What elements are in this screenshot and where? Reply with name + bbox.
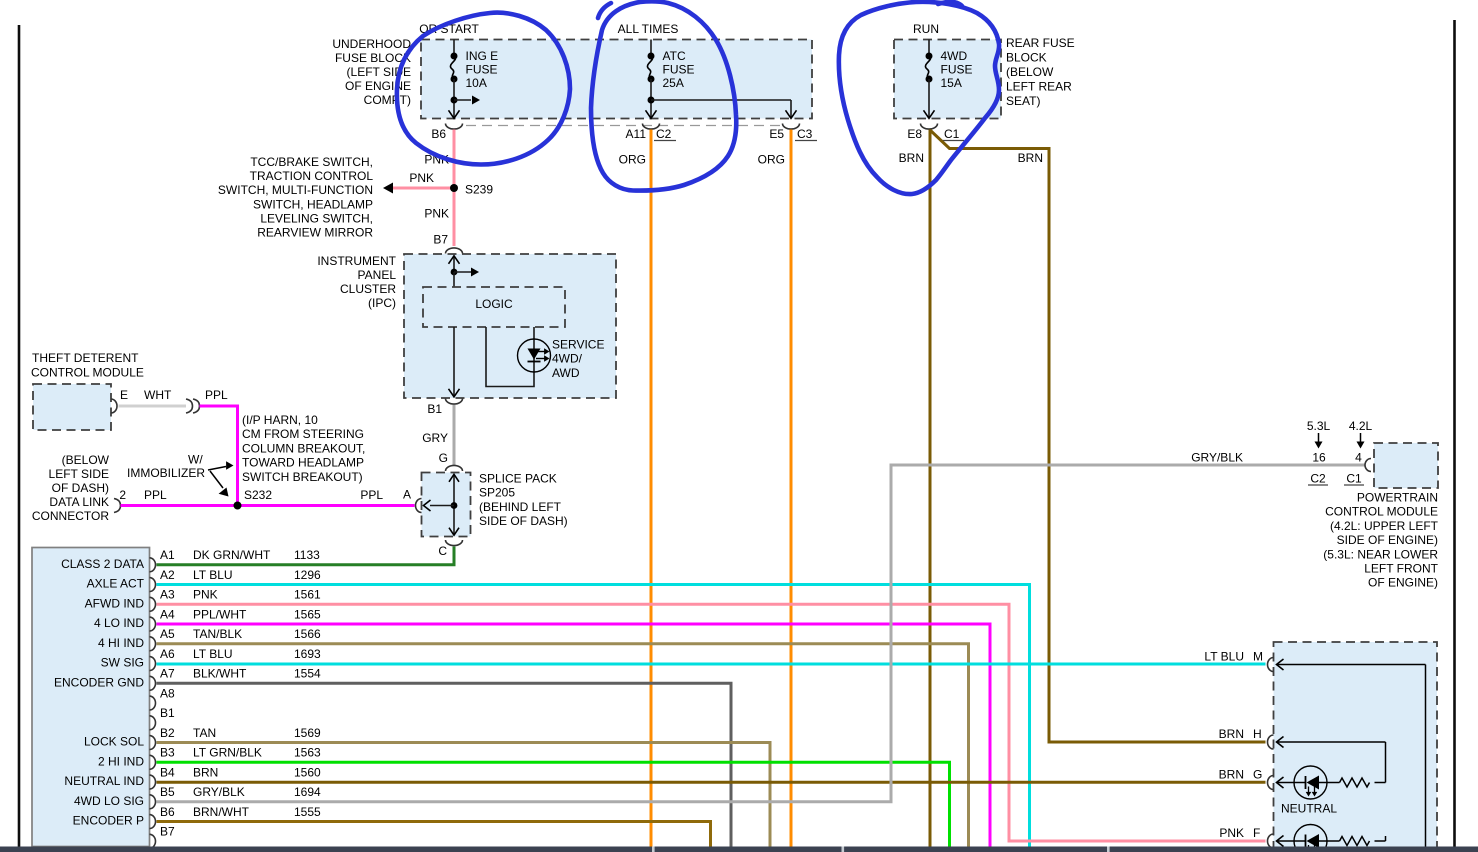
svg-text:LT BLU: LT BLU	[1204, 650, 1244, 664]
svg-text:LT GRN/BLK: LT GRN/BLK	[193, 746, 262, 760]
svg-text:C: C	[438, 544, 447, 558]
svg-text:SIDE OF ENGINE): SIDE OF ENGINE)	[1337, 533, 1438, 547]
svg-text:15A: 15A	[941, 76, 962, 90]
svg-text:4: 4	[1355, 451, 1362, 465]
svg-text:B7: B7	[433, 233, 448, 247]
svg-text:W/: W/	[188, 453, 203, 467]
svg-text:ORG: ORG	[619, 153, 646, 167]
svg-text:1561: 1561	[294, 588, 321, 602]
svg-text:GRY/BLK: GRY/BLK	[1191, 451, 1243, 465]
svg-text:4WD LO SIG: 4WD LO SIG	[74, 794, 144, 808]
svg-text:B1: B1	[160, 706, 175, 720]
svg-text:BRN: BRN	[1018, 151, 1043, 165]
svg-text:PANEL: PANEL	[358, 268, 397, 282]
svg-text:A4: A4	[160, 607, 175, 621]
svg-text:SEAT): SEAT)	[1006, 94, 1040, 108]
svg-text:FUSE: FUSE	[941, 63, 973, 77]
svg-text:H: H	[1253, 727, 1262, 741]
svg-text:B6: B6	[160, 805, 175, 819]
svg-text:1565: 1565	[294, 607, 321, 621]
svg-text:BRN: BRN	[193, 765, 218, 779]
svg-text:SIDE OF DASH): SIDE OF DASH)	[479, 514, 568, 528]
svg-text:FUSE BLOCK: FUSE BLOCK	[335, 51, 411, 65]
svg-text:OF ENGINE): OF ENGINE)	[1368, 576, 1438, 590]
svg-text:LEFT SIDE: LEFT SIDE	[49, 467, 109, 481]
svg-text:(5.3L: NEAR LOWER: (5.3L: NEAR LOWER	[1323, 547, 1438, 561]
svg-text:ATC: ATC	[663, 49, 686, 63]
svg-text:B1: B1	[427, 402, 442, 416]
svg-text:PPL: PPL	[205, 388, 228, 402]
svg-text:S232: S232	[244, 488, 272, 502]
svg-text:4 HI IND: 4 HI IND	[98, 636, 144, 650]
svg-text:UNDERHOOD: UNDERHOOD	[332, 37, 411, 51]
svg-text:1296: 1296	[294, 568, 321, 582]
svg-text:PPL: PPL	[144, 488, 167, 502]
svg-text:SWITCH, MULTI-FUNCTION: SWITCH, MULTI-FUNCTION	[218, 183, 373, 197]
svg-text:LOGIC: LOGIC	[475, 297, 513, 311]
svg-text:A: A	[403, 488, 411, 502]
svg-text:SPLICE PACK: SPLICE PACK	[479, 472, 557, 486]
svg-text:CONNECTOR: CONNECTOR	[32, 509, 109, 523]
svg-text:S239: S239	[465, 183, 493, 197]
svg-text:E5: E5	[769, 127, 784, 141]
svg-text:CONTROL MODULE: CONTROL MODULE	[1325, 505, 1438, 519]
svg-text:4 LO IND: 4 LO IND	[94, 616, 144, 630]
svg-text:OF DASH): OF DASH)	[52, 481, 109, 495]
svg-text:B4: B4	[160, 765, 175, 779]
svg-text:4WD/: 4WD/	[552, 352, 583, 366]
svg-text:(IPC): (IPC)	[368, 296, 396, 310]
svg-text:ENCODER P: ENCODER P	[73, 814, 144, 828]
svg-text:PPL: PPL	[360, 488, 383, 502]
svg-text:PNK: PNK	[1219, 826, 1244, 840]
svg-text:B2: B2	[160, 726, 175, 740]
svg-text:SP205: SP205	[479, 486, 515, 500]
svg-text:A11: A11	[626, 127, 647, 141]
svg-text:ALL TIMES: ALL TIMES	[618, 22, 679, 36]
svg-text:LEFT FRONT: LEFT FRONT	[1364, 562, 1438, 576]
svg-text:PNK: PNK	[424, 207, 449, 221]
svg-text:TAN: TAN	[193, 726, 216, 740]
svg-text:TAN/BLK: TAN/BLK	[193, 627, 242, 641]
svg-text:PNK: PNK	[193, 588, 218, 602]
svg-text:DATA LINK: DATA LINK	[49, 495, 109, 509]
svg-text:COLUMN BREAKOUT,: COLUMN BREAKOUT,	[242, 441, 365, 455]
svg-text:B3: B3	[160, 746, 175, 760]
svg-text:1569: 1569	[294, 726, 321, 740]
svg-text:IMMOBILIZER: IMMOBILIZER	[127, 466, 205, 480]
svg-text:(BEHIND LEFT: (BEHIND LEFT	[479, 500, 562, 514]
svg-text:TOWARD HEADLAMP: TOWARD HEADLAMP	[242, 456, 364, 470]
svg-text:ING E: ING E	[466, 49, 499, 63]
svg-text:B7: B7	[160, 825, 175, 839]
svg-text:AXLE ACT: AXLE ACT	[87, 577, 145, 591]
svg-text:1555: 1555	[294, 805, 321, 819]
svg-text:SERVICE: SERVICE	[552, 338, 604, 352]
svg-text:E: E	[120, 388, 128, 402]
svg-text:PNK: PNK	[409, 171, 434, 185]
svg-text:1694: 1694	[294, 785, 321, 799]
svg-text:A7: A7	[160, 667, 175, 681]
svg-text:BRN: BRN	[1219, 727, 1244, 741]
svg-text:CONTROL MODULE: CONTROL MODULE	[31, 366, 144, 380]
svg-text:2: 2	[119, 488, 126, 502]
svg-text:A6: A6	[160, 647, 175, 661]
svg-text:NEUTRAL: NEUTRAL	[1281, 802, 1337, 816]
svg-text:1554: 1554	[294, 667, 321, 681]
svg-text:REARVIEW MIRROR: REARVIEW MIRROR	[257, 226, 373, 240]
svg-text:OF ENGINE: OF ENGINE	[345, 79, 411, 93]
svg-text:1560: 1560	[294, 765, 321, 779]
svg-text:BRN: BRN	[1219, 768, 1244, 782]
svg-text:4.2L: 4.2L	[1349, 419, 1373, 433]
svg-text:B6: B6	[431, 127, 446, 141]
svg-text:LEVELING SWITCH,: LEVELING SWITCH,	[260, 211, 373, 225]
svg-text:(BELOW: (BELOW	[1006, 65, 1054, 79]
svg-text:GRY/BLK: GRY/BLK	[193, 785, 245, 799]
svg-text:LOCK SOL: LOCK SOL	[84, 735, 144, 749]
svg-text:4WD: 4WD	[941, 49, 968, 63]
svg-text:BLK/WHT: BLK/WHT	[193, 667, 247, 681]
svg-text:CLUSTER: CLUSTER	[340, 282, 396, 296]
svg-text:16: 16	[1312, 451, 1326, 465]
svg-text:PPL/WHT: PPL/WHT	[193, 607, 247, 621]
svg-text:A8: A8	[160, 686, 175, 700]
svg-text:G: G	[1253, 768, 1262, 782]
svg-text:INSTRUMENT: INSTRUMENT	[317, 254, 396, 268]
svg-text:TCC/BRAKE SWITCH,: TCC/BRAKE SWITCH,	[250, 155, 373, 169]
svg-text:THEFT DETERENT: THEFT DETERENT	[32, 351, 139, 365]
svg-text:FUSE: FUSE	[466, 63, 498, 77]
svg-text:25A: 25A	[663, 76, 684, 90]
svg-text:WHT: WHT	[144, 388, 172, 402]
svg-text:LT BLU: LT BLU	[193, 568, 233, 582]
svg-text:(4.2L: UPPER LEFT: (4.2L: UPPER LEFT	[1330, 519, 1439, 533]
svg-text:(I/P HARN, 10: (I/P HARN, 10	[242, 413, 318, 427]
svg-text:NEUTRAL IND: NEUTRAL IND	[64, 774, 144, 788]
svg-text:BRN/WHT: BRN/WHT	[193, 805, 250, 819]
svg-text:RUN: RUN	[913, 22, 939, 36]
svg-text:E8: E8	[907, 127, 922, 141]
svg-text:A5: A5	[160, 627, 175, 641]
svg-text:1133: 1133	[294, 548, 320, 562]
svg-text:BRN: BRN	[899, 151, 924, 165]
svg-text:LEFT REAR: LEFT REAR	[1006, 80, 1072, 94]
svg-text:COMPT): COMPT)	[364, 93, 411, 107]
svg-text:C1: C1	[944, 127, 960, 141]
svg-text:BLOCK: BLOCK	[1006, 51, 1047, 65]
svg-text:AWD: AWD	[552, 366, 580, 380]
svg-text:REAR FUSE: REAR FUSE	[1006, 36, 1075, 50]
svg-text:GRY: GRY	[422, 431, 448, 445]
svg-text:C2: C2	[656, 127, 672, 141]
svg-text:FUSE: FUSE	[663, 63, 695, 77]
svg-text:POWERTRAIN: POWERTRAIN	[1357, 491, 1438, 505]
svg-text:A3: A3	[160, 588, 175, 602]
svg-text:1693: 1693	[294, 647, 321, 661]
svg-text:5.3L: 5.3L	[1307, 419, 1331, 433]
svg-text:ORG: ORG	[758, 153, 785, 167]
svg-text:A1: A1	[160, 548, 175, 562]
svg-text:C1: C1	[1346, 472, 1362, 486]
svg-text:CM FROM STEERING: CM FROM STEERING	[242, 427, 364, 441]
svg-text:TRACTION CONTROL: TRACTION CONTROL	[250, 169, 374, 183]
svg-text:(BELOW: (BELOW	[62, 453, 110, 467]
svg-text:SWITCH, HEADLAMP: SWITCH, HEADLAMP	[253, 197, 373, 211]
svg-text:B5: B5	[160, 785, 175, 799]
svg-text:1566: 1566	[294, 627, 321, 641]
svg-text:SW SIG: SW SIG	[101, 656, 144, 670]
svg-text:G: G	[439, 451, 448, 465]
svg-text:2 HI IND: 2 HI IND	[98, 754, 144, 768]
svg-text:1563: 1563	[294, 746, 321, 760]
svg-text:CLASS 2 DATA: CLASS 2 DATA	[61, 557, 144, 571]
svg-text:C2: C2	[1310, 472, 1326, 486]
svg-text:C3: C3	[797, 127, 813, 141]
svg-text:DK GRN/WHT: DK GRN/WHT	[193, 548, 271, 562]
svg-text:LT BLU: LT BLU	[193, 647, 233, 661]
svg-text:M: M	[1253, 650, 1263, 664]
svg-text:AFWD IND: AFWD IND	[85, 596, 145, 610]
svg-text:10A: 10A	[466, 76, 487, 90]
svg-text:SWITCH BREAKOUT): SWITCH BREAKOUT)	[242, 470, 363, 484]
svg-text:ENCODER GND: ENCODER GND	[54, 675, 144, 689]
svg-text:F: F	[1253, 826, 1260, 840]
svg-text:A2: A2	[160, 568, 175, 582]
